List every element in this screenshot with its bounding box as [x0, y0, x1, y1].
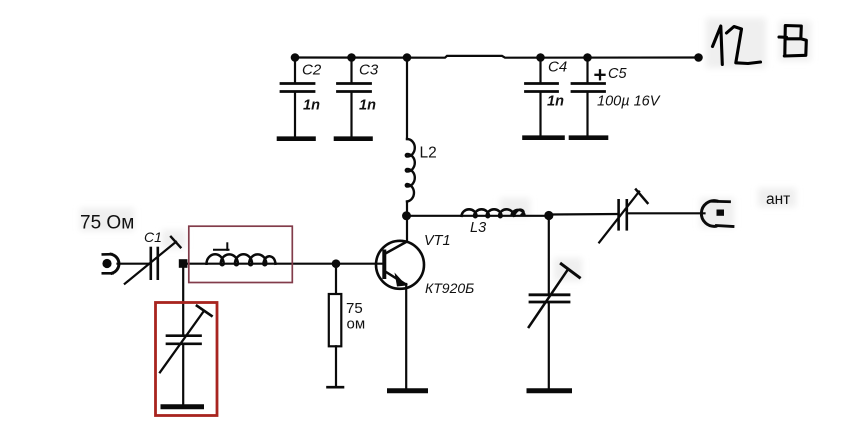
variable capacitor output shunt trimmer	[529, 264, 580, 388]
variable capacitor output series trimmer	[599, 190, 647, 243]
ground (C4)	[525, 135, 563, 140]
ground (C5)	[571, 135, 606, 140]
svg-text:L2: L2	[420, 145, 437, 162]
node junction dots on supply rail	[291, 53, 703, 62]
svg-text:100µ 16V: 100µ 16V	[597, 94, 661, 110]
wire trimmer to antenna jack	[627, 212, 705, 214]
highlight box matching inductor (dark red)	[189, 226, 292, 282]
svg-text:C3: C3	[359, 62, 379, 79]
ground (C2)	[279, 136, 314, 141]
wire top supply rail	[295, 56, 699, 58]
ground (resistor stub)	[328, 386, 344, 389]
node output junction	[544, 211, 553, 220]
ground (C3)	[336, 136, 371, 141]
transistor VT1 KT920B	[376, 216, 474, 388]
variable capacitor C1	[125, 229, 181, 284]
svg-text:1n: 1n	[359, 98, 376, 114]
node collector junction	[402, 211, 411, 220]
node base junction	[332, 259, 341, 268]
inductor L3	[462, 209, 525, 236]
svg-text:C2: C2	[302, 62, 322, 79]
input connector jack	[102, 254, 149, 273]
wire collector to L3 node	[407, 215, 549, 217]
svg-text:L3: L3	[470, 220, 486, 236]
svg-text:1n: 1n	[547, 94, 564, 110]
ground (emitter)	[390, 388, 426, 393]
ground (output trimmer)	[529, 388, 570, 393]
capacitor C3	[338, 58, 379, 138]
svg-text:ант: ант	[766, 191, 790, 208]
svg-text:VT1: VT1	[424, 233, 451, 249]
svg-text:ом: ом	[347, 316, 366, 333]
antenna connector jack	[701, 201, 733, 227]
wire node down to shunt trimmer	[548, 216, 550, 294]
svg-text:C5: C5	[608, 66, 627, 82]
svg-text:75: 75	[346, 300, 363, 317]
svg-text:C4: C4	[548, 59, 567, 76]
label 12 V handwritten	[713, 26, 807, 65]
svg-text:C1: C1	[144, 229, 162, 245]
variable capacitor input tank trimmer	[160, 306, 212, 373]
inductor L1 matching coil	[207, 243, 276, 265]
wire node to output trimmer	[549, 213, 618, 216]
capacitor C4	[526, 58, 568, 137]
svg-text:1n: 1n	[303, 98, 320, 114]
wire input node down to tank trimmer	[182, 268, 184, 335]
node input square junction	[179, 259, 188, 268]
inductor L2	[406, 58, 437, 217]
svg-text:КТ920Б: КТ920Б	[425, 280, 474, 296]
resistor 75 ohm	[329, 264, 365, 386]
wire base line	[188, 263, 383, 265]
capacitor C5 (electrolytic, polarity +)	[572, 58, 661, 137]
ground (input trimmer)	[163, 404, 202, 409]
svg-text:75 Ом: 75 Ом	[80, 213, 134, 234]
highlight box input trimmer (bright red)	[156, 303, 218, 416]
capacitor C2	[281, 58, 322, 138]
